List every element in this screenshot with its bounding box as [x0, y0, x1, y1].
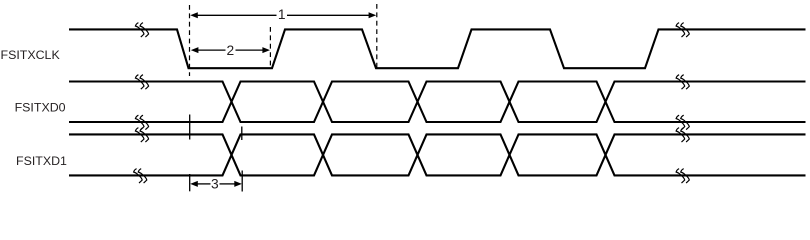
FSITXD1 waveform lower/cross path: [69, 134, 806, 175]
extension tick at x=190 between D0 low and D1 high: [189, 115, 191, 140]
dashed reference line at first CLK falling edge: [189, 5, 191, 76]
dimension arrow 3 (CLK edge to data valid): [190, 181, 242, 187]
svg-text:1: 1: [278, 7, 286, 22]
break mark on FSITXD0 low left: [135, 115, 148, 129]
svg-text:2: 2: [226, 43, 234, 58]
extension tick at x=190 below D1 low: [189, 174, 191, 191]
FSITXCLK waveform: [69, 29, 806, 68]
svg-text:3: 3: [211, 177, 219, 192]
break mark on FSITXD0 high right: [676, 75, 689, 89]
dimension arrow 2 (CLK low time): [191, 47, 270, 53]
FSITXD0 waveform lower/cross path: [69, 82, 806, 123]
dashed reference line at second CLK falling edge: [376, 4, 378, 68]
break mark on FSITXD0 high left: [135, 75, 148, 89]
break mark on FSITXD1 high right: [676, 128, 689, 142]
svg-text:FSITXD1: FSITXD1: [16, 154, 67, 168]
dashed reference line at CLK rising edge: [269, 27, 271, 68]
FSITXD1 waveform upper/cross path: [69, 134, 806, 175]
extension tick at x=242 between D0 low and D1 high: [241, 127, 243, 141]
break mark on FSITXCLK left: [135, 23, 148, 37]
extension tick at x=242 below D1 low: [241, 171, 243, 192]
FSITXD0 waveform upper/cross path: [69, 82, 806, 123]
break mark on FSITXD0 low right: [676, 115, 689, 129]
break mark on FSITXD1 low left: [134, 169, 147, 183]
svg-text:FSITXCLK: FSITXCLK: [1, 48, 61, 62]
break mark on FSITXD1 low right: [676, 169, 689, 183]
dimension arrow 1 (CLK period): [190, 12, 376, 18]
svg-text:FSITXD0: FSITXD0: [15, 101, 66, 115]
break mark on FSITXCLK right: [676, 23, 689, 37]
break mark on FSITXD1 high left: [135, 128, 148, 142]
